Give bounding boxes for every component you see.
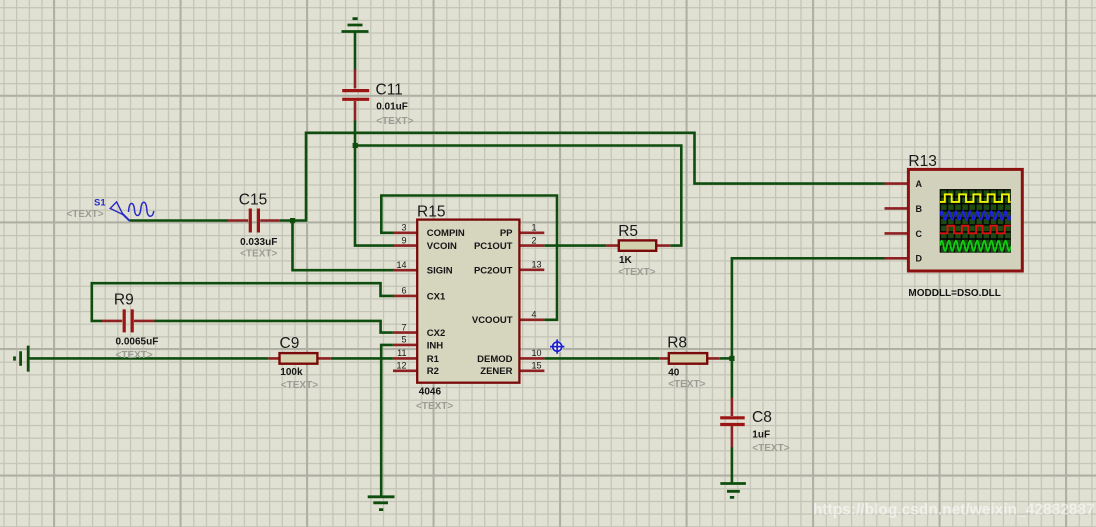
- svg-text:100k: 100k: [280, 367, 303, 378]
- svg-text:D: D: [916, 254, 923, 264]
- svg-text:R2: R2: [427, 366, 439, 377]
- svg-text:1uF: 1uF: [752, 429, 770, 440]
- svg-text:R5: R5: [618, 223, 638, 240]
- svg-text:12: 12: [396, 361, 406, 371]
- svg-text:R9: R9: [114, 292, 134, 309]
- svg-text:1: 1: [532, 223, 537, 233]
- svg-text:13: 13: [532, 260, 542, 270]
- svg-text:CX1: CX1: [427, 291, 446, 302]
- svg-text:INH: INH: [427, 340, 444, 351]
- svg-text:0.0065uF: 0.0065uF: [116, 336, 159, 347]
- svg-text:DEMOD: DEMOD: [477, 354, 513, 365]
- svg-text:<TEXT>: <TEXT>: [618, 267, 655, 278]
- svg-text:SIGIN: SIGIN: [427, 266, 453, 277]
- svg-text:6: 6: [401, 286, 406, 296]
- svg-text:S1: S1: [94, 197, 106, 208]
- svg-text:<TEXT>: <TEXT>: [116, 350, 153, 361]
- svg-text:R13: R13: [908, 153, 936, 170]
- svg-text:2: 2: [532, 235, 537, 245]
- svg-text:C8: C8: [752, 409, 772, 426]
- svg-text:R8: R8: [667, 335, 687, 352]
- svg-text:9: 9: [401, 235, 406, 245]
- svg-text:B: B: [916, 204, 923, 214]
- svg-text:7: 7: [401, 322, 406, 332]
- svg-text:R1: R1: [427, 354, 440, 365]
- svg-text:5: 5: [401, 335, 406, 345]
- svg-text:C: C: [916, 229, 923, 239]
- svg-text:https://blog.csdn.net/weixin_4: https://blog.csdn.net/weixin_42882887: [813, 502, 1095, 519]
- svg-text:VCOOUT: VCOOUT: [472, 315, 513, 326]
- svg-text:A: A: [916, 179, 923, 189]
- svg-text:C9: C9: [280, 335, 300, 352]
- svg-text:10: 10: [532, 348, 542, 358]
- svg-text:COMPIN: COMPIN: [427, 228, 465, 239]
- svg-text:<TEXT>: <TEXT>: [668, 379, 705, 390]
- svg-text:PC1OUT: PC1OUT: [474, 241, 513, 252]
- svg-text:40: 40: [668, 367, 680, 378]
- svg-text:<TEXT>: <TEXT>: [416, 401, 453, 412]
- svg-text:<TEXT>: <TEXT>: [752, 443, 789, 454]
- svg-text:0.01uF: 0.01uF: [376, 102, 408, 113]
- svg-text:11: 11: [397, 348, 406, 358]
- svg-text:ZENER: ZENER: [480, 366, 512, 377]
- svg-text:VCOIN: VCOIN: [427, 241, 457, 252]
- svg-text:PC2OUT: PC2OUT: [474, 266, 513, 277]
- svg-text:<TEXT>: <TEXT>: [66, 209, 103, 220]
- svg-text:PP: PP: [500, 228, 513, 239]
- svg-text:<TEXT>: <TEXT>: [376, 116, 413, 127]
- svg-text:3: 3: [401, 223, 406, 233]
- svg-text:R15: R15: [417, 204, 445, 221]
- svg-text:1K: 1K: [619, 255, 633, 266]
- svg-text:<TEXT>: <TEXT>: [281, 380, 318, 391]
- svg-text:0.033uF: 0.033uF: [240, 237, 277, 248]
- svg-text:MODDLL=DSO.DLL: MODDLL=DSO.DLL: [908, 288, 1001, 299]
- svg-text:C15: C15: [239, 192, 267, 209]
- svg-text:15: 15: [532, 360, 542, 370]
- svg-text:<TEXT>: <TEXT>: [240, 249, 277, 260]
- svg-text:14: 14: [396, 260, 406, 270]
- svg-text:CX2: CX2: [427, 328, 445, 339]
- svg-text:C11: C11: [376, 82, 403, 99]
- svg-text:4: 4: [532, 310, 537, 320]
- svg-text:4046: 4046: [419, 387, 442, 398]
